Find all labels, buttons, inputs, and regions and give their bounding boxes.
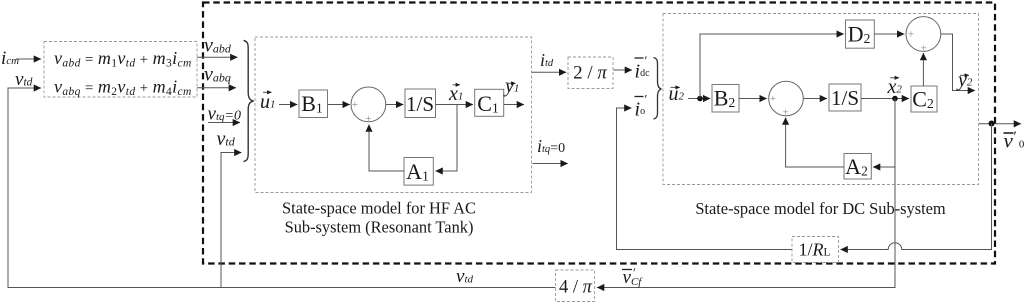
DC sub-system dashed box bbox=[663, 14, 979, 185]
wire vtd feedback from 4/pi box to equation box bbox=[8, 88, 556, 288]
node x2 junction bbox=[892, 96, 898, 102]
label vtq=0 bbox=[208, 104, 241, 125]
svg-text:′: ′ bbox=[645, 92, 648, 107]
svg-text:vtd: vtd bbox=[456, 266, 473, 287]
svg-text:vabd: vabd bbox=[204, 35, 232, 57]
wire summer3 output to y2 bbox=[941, 34, 975, 91]
svg-text:′: ′ bbox=[645, 53, 648, 68]
label y2 vector bbox=[956, 69, 973, 91]
summing junction 1 bbox=[351, 87, 386, 125]
wire vabq to brace bbox=[197, 87, 236, 89]
node u2 junction bbox=[697, 96, 703, 102]
scaling block 2/pi bbox=[568, 57, 613, 89]
label u1 vector bbox=[260, 91, 276, 113]
wire C2 up to summer3 bbox=[922, 53, 924, 86]
gain block A1 bbox=[404, 158, 433, 186]
gain block D2 bbox=[846, 20, 875, 48]
summing junction 2 bbox=[769, 81, 804, 118]
svg-text:+: + bbox=[920, 43, 926, 55]
wire D2 to summer3 bbox=[874, 33, 904, 35]
svg-text:′: ′ bbox=[1014, 129, 1017, 145]
svg-text:y2: y2 bbox=[956, 69, 973, 91]
integrator block 1/S bbox=[405, 89, 436, 118]
wire summer2 to integrator2 bbox=[803, 98, 827, 100]
wire v0 output bbox=[979, 123, 1021, 125]
label io-bar-prime bbox=[635, 92, 648, 121]
svg-text:io: io bbox=[635, 99, 646, 121]
svg-text:+: + bbox=[908, 29, 914, 41]
summing junction 3 top bbox=[906, 17, 941, 55]
wire itd to 2/pi bbox=[532, 71, 566, 73]
node v0 junction bbox=[989, 121, 995, 127]
label x2 vector bbox=[887, 76, 903, 98]
load block 1/RL bbox=[792, 237, 839, 263]
wire summer1 to integrator 1 bbox=[386, 104, 404, 106]
wire itq stub bbox=[533, 163, 568, 165]
gain block A2 bbox=[844, 154, 871, 180]
svg-text:vabq = m2vtd + m4icm: vabq = m2vtd + m4icm bbox=[54, 77, 192, 99]
label v0-bar-prime bbox=[1004, 129, 1024, 153]
label vtd bottom feedback bbox=[456, 266, 473, 287]
brace gathering u1 inputs bbox=[244, 41, 254, 162]
svg-text:State-space model for HF AC: State-space model for HF AC bbox=[282, 199, 476, 218]
svg-text:+: + bbox=[365, 113, 371, 125]
label itq=0 bbox=[537, 136, 565, 156]
wire B1 to summer 1 bbox=[328, 104, 350, 106]
svg-text:x1: x1 bbox=[448, 83, 463, 105]
svg-text:y1: y1 bbox=[503, 75, 519, 97]
gain block B2 bbox=[712, 85, 739, 113]
gain block B1 bbox=[299, 90, 328, 118]
svg-text:1/RL: 1/RL bbox=[798, 240, 830, 260]
wire B2 to summer2 bbox=[739, 98, 767, 100]
scaling block 4/pi bbox=[556, 270, 595, 302]
label vabq bbox=[204, 64, 231, 86]
wire x1 feedback down to A1 bbox=[436, 105, 458, 172]
wire u2 to B2 bbox=[688, 98, 710, 100]
svg-text:+: + bbox=[352, 99, 358, 111]
modulation equation box bbox=[44, 42, 197, 98]
wire integrator2 to C2 bbox=[861, 98, 909, 100]
wire x2 branch into A2 bbox=[873, 166, 895, 168]
label idc-bar-prime bbox=[635, 53, 651, 83]
wire x2 down to vCf feedback bbox=[597, 99, 895, 288]
caption HF AC sub-system bbox=[282, 199, 476, 237]
caption DC sub-system bbox=[695, 199, 946, 218]
svg-text:2 / π: 2 / π bbox=[573, 63, 607, 84]
wire u2 branch up to D2 bbox=[700, 34, 844, 99]
label y1 vector bbox=[503, 75, 519, 97]
svg-text:vabd = m1vtd + m3icm: vabd = m1vtd + m3icm bbox=[54, 48, 192, 70]
wire A1 to summer1 bbox=[369, 125, 404, 172]
svg-text:1/S: 1/S bbox=[831, 86, 859, 110]
wire A2 to summer2 bbox=[786, 118, 844, 168]
equation vabd = m1vtd + m3icm bbox=[54, 48, 192, 70]
svg-text:vtd: vtd bbox=[15, 69, 33, 90]
svg-text:State-space model for DC Sub-s: State-space model for DC Sub-system bbox=[695, 199, 946, 218]
svg-text:vabq: vabq bbox=[204, 64, 231, 86]
svg-text:itq=0: itq=0 bbox=[537, 136, 565, 156]
label vtd input top-left bbox=[15, 69, 33, 90]
svg-text:1/S: 1/S bbox=[406, 92, 434, 116]
label itd bbox=[540, 50, 554, 70]
label vtd fourth input bbox=[217, 128, 236, 150]
wire vtq to brace bbox=[208, 122, 240, 124]
wire v0 feedback down into 1/RL with hop bbox=[841, 124, 992, 250]
svg-text:idc: idc bbox=[635, 61, 651, 83]
svg-text:u2: u2 bbox=[669, 83, 685, 105]
svg-text:x2: x2 bbox=[887, 76, 903, 98]
wire C1 output bbox=[504, 104, 524, 106]
brace gathering u2 inputs bbox=[654, 58, 662, 120]
gain block C2 bbox=[911, 86, 937, 112]
svg-text:+: + bbox=[770, 93, 776, 105]
gain block C1 bbox=[475, 89, 504, 116]
wire icm into equation box bbox=[16, 58, 41, 60]
wire vtd branch to brace bbox=[221, 153, 242, 288]
equation vabq = m2vtd + m4icm bbox=[54, 77, 192, 99]
label u2 vector bbox=[669, 83, 685, 105]
outer system boundary dashed box bbox=[203, 3, 995, 264]
wire io feedback from 1/RL up to io label bbox=[617, 108, 793, 250]
wire u1 to B1 bbox=[279, 104, 297, 106]
svg-text:+: + bbox=[783, 107, 789, 119]
integrator block 1/S second bbox=[829, 84, 861, 111]
svg-text:4 / π: 4 / π bbox=[559, 278, 593, 298]
HF AC sub-system dashed box bbox=[255, 37, 532, 193]
svg-text:itd: itd bbox=[540, 50, 554, 70]
label icm input bbox=[1, 48, 19, 69]
label vabd bbox=[204, 35, 232, 57]
label vCf-bar-prime bbox=[622, 265, 643, 288]
svg-text:vtq=0: vtq=0 bbox=[208, 104, 241, 125]
wire 2/pi output to idc bbox=[614, 69, 633, 71]
svg-text:Sub-system (Resonant Tank): Sub-system (Resonant Tank) bbox=[285, 218, 474, 237]
wire integrator1 to C1 bbox=[436, 104, 474, 106]
svg-text:vtd: vtd bbox=[217, 128, 236, 150]
wire vabd to brace bbox=[197, 56, 238, 58]
svg-text:u1: u1 bbox=[260, 91, 276, 113]
svg-text:′: ′ bbox=[633, 265, 636, 280]
label x1 vector bbox=[448, 83, 463, 105]
